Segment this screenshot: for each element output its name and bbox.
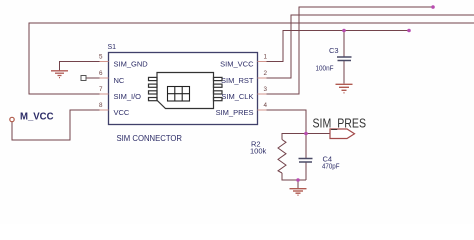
wire NC pin6 to no-connect square [86, 77, 100, 79]
pin stub 4 [258, 109, 267, 111]
connector body S1 [109, 53, 258, 125]
wire SIM_RST pin2 up to rail 2 [267, 15, 474, 78]
svg-text:SIM_RST: SIM_RST [221, 76, 254, 85]
wire C3 stem bottom [343, 61, 345, 84]
wire SIM_CLK pin3 up to rail 1 [267, 7, 434, 94]
svg-text:8: 8 [99, 102, 103, 109]
no-connect square on NC pin [81, 76, 86, 81]
wire SIM_I/O pin7 left vertical and top rail [29, 23, 474, 94]
wire VCC pin8 to M_VCC port [12, 110, 100, 140]
svg-text:470pF: 470pF [322, 162, 340, 171]
svg-text:4: 4 [264, 102, 268, 109]
ground symbol top-left [51, 71, 68, 78]
port arrow SIM_PRES [330, 129, 355, 139]
wire node to R2 top [282, 134, 306, 140]
pin stub 8 [100, 109, 109, 111]
junction dot ground node [296, 178, 300, 182]
svg-text:NC: NC [114, 76, 125, 85]
svg-text:SIM CONNECTOR: SIM CONNECTOR [117, 134, 183, 143]
svg-text:SIM_GND: SIM_GND [114, 60, 149, 69]
pin stub 1 [258, 61, 267, 63]
svg-text:S1: S1 [108, 44, 117, 51]
junction dot SIM_PRES node [304, 132, 308, 136]
svg-text:6: 6 [99, 70, 103, 77]
svg-text:1: 1 [264, 54, 268, 61]
svg-text:SIM_I/O: SIM_I/O [114, 92, 142, 101]
svg-text:SIM_CLK: SIM_CLK [221, 92, 253, 101]
wire ground stem below node [297, 180, 299, 188]
pin stub 5 [100, 61, 109, 63]
capacitor C3 [337, 57, 352, 61]
wire C3 stem top [343, 31, 345, 57]
wire node to SIM_PRES port [306, 133, 330, 135]
svg-text:2: 2 [264, 70, 268, 77]
wire SIM_PRES pin4 down to node [267, 110, 307, 134]
pin stub 6 [100, 77, 109, 79]
svg-text:3: 3 [264, 86, 268, 93]
pin stubs (component pins) [100, 62, 267, 111]
ground symbol below R2 C4 [290, 189, 307, 196]
svg-text:SIM_PRES: SIM_PRES [216, 108, 254, 117]
wire SIM_GND pin5 to ground [60, 62, 100, 71]
port M_VCC [10, 117, 14, 121]
pin stub 7 [100, 93, 109, 95]
ground symbol below C3 [336, 84, 353, 93]
svg-text:VCC: VCC [114, 108, 130, 117]
svg-text:M_VCC: M_VCC [20, 111, 54, 123]
resistor R2 [278, 140, 286, 174]
junction dot end of SIM_CLK rail [431, 5, 435, 9]
SIM card icon inside connector [149, 73, 223, 109]
wire C4 stem bottom [305, 163, 307, 181]
svg-text:100nF: 100nF [316, 64, 334, 73]
svg-text:7: 7 [99, 86, 103, 93]
junction dot C3 on VCC rail [342, 29, 346, 33]
wire SIM_VCC pin1 up to VCC rail [267, 31, 410, 62]
junction dot end of VCC rail [407, 29, 411, 33]
wire C4 stem top [305, 134, 307, 159]
svg-text:SIM_VCC: SIM_VCC [220, 60, 254, 69]
wire R2 bottom to C4 bottom [282, 173, 306, 180]
SIM card contact grid [168, 87, 190, 102]
svg-text:SIM_PRES: SIM_PRES [313, 116, 367, 131]
svg-text:5: 5 [99, 54, 103, 61]
svg-text:C3: C3 [329, 46, 339, 55]
capacitor C4 [299, 159, 313, 163]
pin stub 3 [258, 93, 267, 95]
pin stub 2 [258, 77, 267, 79]
svg-text:100k: 100k [250, 147, 267, 156]
